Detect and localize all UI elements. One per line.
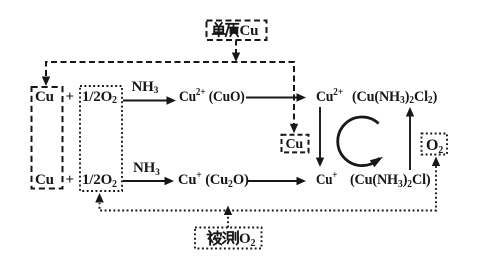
box: O2 (dotted, right) <box>422 134 448 155</box>
label: plus sign bottom row <box>66 173 74 188</box>
label: Chinese char 被 (bei) in measured-O2 box <box>207 231 221 245</box>
label: Cu+ product bottom <box>316 173 337 189</box>
label: Cu(NH3)2Cl complex <box>350 173 430 189</box>
label: Cu in middle dashed box <box>286 137 304 152</box>
label: O2 in measured-O2 box <box>239 232 255 248</box>
label: 1/2 O2 bottom row <box>82 173 117 189</box>
arrow: CuO to Cu2+, top row <box>246 97 298 99</box>
label: Cu top-left reactant <box>35 90 54 105</box>
label: Cu(NH3)2Cl2 complex <box>352 90 437 106</box>
box: elemental Cu (dashed) <box>207 21 267 41</box>
box: measured O2 (dotted, bottom) <box>195 228 262 249</box>
box: middle intermediate Cu (dashed) <box>282 135 309 153</box>
wire: dotted arrow up into 1/2 O2 box <box>95 193 104 203</box>
arrow: NH3 reaction arrow, top row <box>123 100 168 102</box>
label: plus sign top row <box>66 90 74 105</box>
arrow: Cu2+ down to Cu+ <box>319 107 321 158</box>
arrow: circular cycle arrow (counterclockwise) <box>338 117 380 166</box>
label: NH3 over bottom arrow <box>133 161 160 178</box>
wire: dotted O2 recycle path, from bottom bus up into O2 box <box>432 157 440 167</box>
label: Chinese char 质 (zhi) in elemental-Cu box <box>226 24 239 37</box>
label: Chinese char 单 (dan) in elemental-Cu box <box>213 23 225 37</box>
label: Chinese char 测 (ce) in measured-O2 box <box>223 231 238 245</box>
box: left reactant Cu (tall dashed) <box>32 87 63 189</box>
label: Cu2+ (CuO) <box>179 90 245 106</box>
label: Cu+ (Cu2O) <box>178 173 249 189</box>
arrow: Cu2O to Cu+, bottom row <box>247 180 298 182</box>
wire: dotted arrow from measured-O2 box up to bus <box>227 214 229 228</box>
label: O2 in dotted box <box>426 138 443 155</box>
arrow: NH3 reaction arrow, bottom row <box>123 180 166 182</box>
arrow: Cu(NH3)2Cl up to Cu(NH3)2Cl2 <box>409 116 411 170</box>
label: Cu bottom-left reactant <box>35 173 54 188</box>
wire: dashed bus from top, left branch down to left Cu box, right branch down to middle Cu box <box>46 62 294 124</box>
label: Cu2+ product top <box>316 90 343 106</box>
box: 1/2 O2 reactant (tall dotted) <box>80 86 122 191</box>
label: NH3 over top arrow <box>132 80 159 97</box>
wire: dashed arrow from elemental-Cu box down to dashed bus <box>235 41 237 54</box>
label: Cu in elemental-Cu box <box>240 24 259 39</box>
label: 1/2 O2 top row <box>82 90 117 106</box>
